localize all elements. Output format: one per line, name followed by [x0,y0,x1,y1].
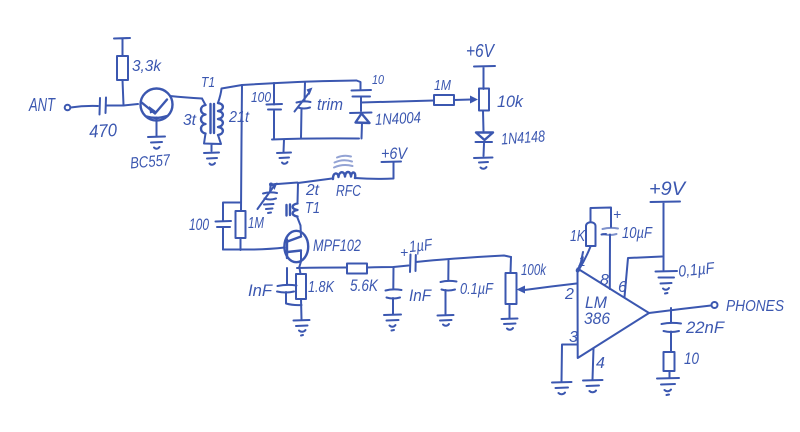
svg-text:10k: 10k [497,92,524,111]
capacitor 1uF coupling [400,237,434,272]
pin 1 stub [576,252,586,273]
resistor 10k [479,89,524,112]
wire 1uF to pot [416,256,511,263]
resistor 3,3k [117,56,162,80]
svg-text:5.6K: 5.6K [350,276,379,295]
svg-text:0.1µF: 0.1µF [460,281,494,298]
svg-text:10: 10 [684,349,699,368]
op-amp U1 LM386 triangle [578,269,650,359]
output wire and PHONES terminal [649,298,784,315]
wire 3,3k to base junction [123,80,124,105]
transformer T1 secondary 21t [218,103,249,135]
wire T1 secondary top rail [218,81,357,104]
svg-text:ANT: ANT [28,95,56,115]
capacitor 10uF [602,206,653,242]
ground under 1.8K [294,320,310,336]
wire wiper to pin 2 [525,284,577,291]
svg-text:T1: T1 [201,74,215,91]
svg-text:4: 4 [596,355,605,372]
svg-text:+: + [613,206,621,222]
svg-text:1M: 1M [434,77,451,94]
ground small under regen trim [264,204,274,213]
+9V supply [649,179,687,270]
diode D1 1N4004 [350,103,422,139]
capacitor 1nF source bypass [248,268,302,305]
svg-text:10: 10 [372,72,385,87]
resistor 1M horizontal [434,77,454,105]
svg-text:22nF: 22nF [685,318,726,337]
transformer T1 primary 3t [183,99,206,134]
ground under 10 [657,378,679,395]
svg-text:3t: 3t [183,112,197,129]
wire ANT to capacitor 470 [71,106,99,108]
wire T1 bottoms to ground [204,134,221,152]
svg-text:+: + [400,244,408,260]
svg-text:1µF: 1µF [408,237,434,256]
svg-text:2t: 2t [305,182,320,199]
wire Q1 collector to T1 primary [170,96,202,99]
trimmer capacitor trim [295,82,344,138]
resistor 1.8K [296,268,335,319]
capacitor 10 coupling [352,72,385,103]
ground tank [277,140,291,164]
ground under pot [502,319,518,330]
svg-text:386: 386 [584,309,610,328]
svg-text:T1: T1 [305,200,320,217]
svg-text:1.8K: 1.8K [308,279,335,296]
svg-text:100: 100 [251,89,272,106]
svg-text:2: 2 [564,286,574,303]
capacitor 0,1uF shunt [441,261,494,315]
ground under 1N4148 [474,158,493,169]
wire 1M to wiper arrow [454,96,478,104]
resistor 10 [664,349,700,378]
transformer T1 link winding 2t [287,182,321,226]
svg-text:+6V: +6V [381,144,408,163]
svg-text:+9V: +9V [649,179,687,200]
power tap T-bar top left [114,38,130,56]
potentiometer 100k [506,257,547,318]
ground under T1 [204,153,219,165]
svg-text:1N4148: 1N4148 [501,128,546,148]
svg-text:10µF: 10µF [622,225,653,242]
capacitor C 470 [88,98,117,142]
ground under Q1 [148,137,165,149]
pin 8 wire [600,235,610,290]
svg-text:InF: InF [248,281,274,300]
wire source to 5.6K [297,267,347,270]
wire regen node to RFC [271,179,332,185]
capacitor 1nF shunt [386,267,433,314]
transistor Q1 BC557 [141,89,173,137]
svg-text:100: 100 [189,215,209,234]
capacitor 22nF [662,308,726,352]
label LM 386 [584,293,610,328]
capacitor 100 tank [251,83,282,139]
svg-text:+6V: +6V [466,41,496,61]
resistor 1M vertical (gate leak) [236,211,265,250]
wire 5.6K to 1uF [367,266,409,268]
pin 3 wire and ground [552,329,578,394]
svg-text:6: 6 [618,279,627,296]
resistor 1K [570,222,596,269]
node ANT terminal [28,95,70,115]
wire gate line [223,248,285,250]
svg-text:100k: 100k [521,262,547,279]
wire RFC to +6V [355,163,394,179]
tank bottom wire [272,138,359,139]
ground under 0,1uF shunt [438,315,454,326]
svg-text:InF: InF [409,286,432,305]
JFET MPF102 [284,226,361,269]
pin 6 wire [618,257,662,298]
ground under 1nF shunt [384,315,401,331]
inductor RFC [333,156,361,200]
svg-text:BC557: BC557 [129,152,171,173]
svg-text:1M: 1M [248,215,264,232]
capacitor 100 gate [189,203,241,250]
svg-text:3: 3 [569,329,578,346]
svg-text:3,3k: 3,3k [132,58,162,75]
svg-text:1K: 1K [570,228,586,245]
svg-text:8: 8 [600,272,609,289]
svg-text:PHONES: PHONES [726,298,784,315]
+6V supply at RFC [381,144,408,163]
+6V supply top right [466,41,496,89]
wire capacitor 470 to Q1 base [107,104,139,106]
svg-text:RFC: RFC [336,183,361,200]
trimmer capacitor regen [258,183,278,210]
svg-text:MPF102: MPF102 [313,236,361,255]
capacitor 0,1uF decoupling with ground [656,260,717,294]
wire top rail down to 1M vertical [241,85,242,211]
wire 1K top to 10uF [591,208,612,228]
svg-text:trim: trim [317,95,343,114]
resistor 5.6K [347,264,379,296]
svg-text:470: 470 [88,120,117,142]
wire detector node to 1M [361,101,434,103]
svg-text:1N4004: 1N4004 [375,110,422,129]
pin 4 wire and ground [583,349,605,393]
svg-text:21t: 21t [228,109,249,126]
diode D2 1N4148 [476,111,546,156]
transformer T1 core [211,104,215,133]
